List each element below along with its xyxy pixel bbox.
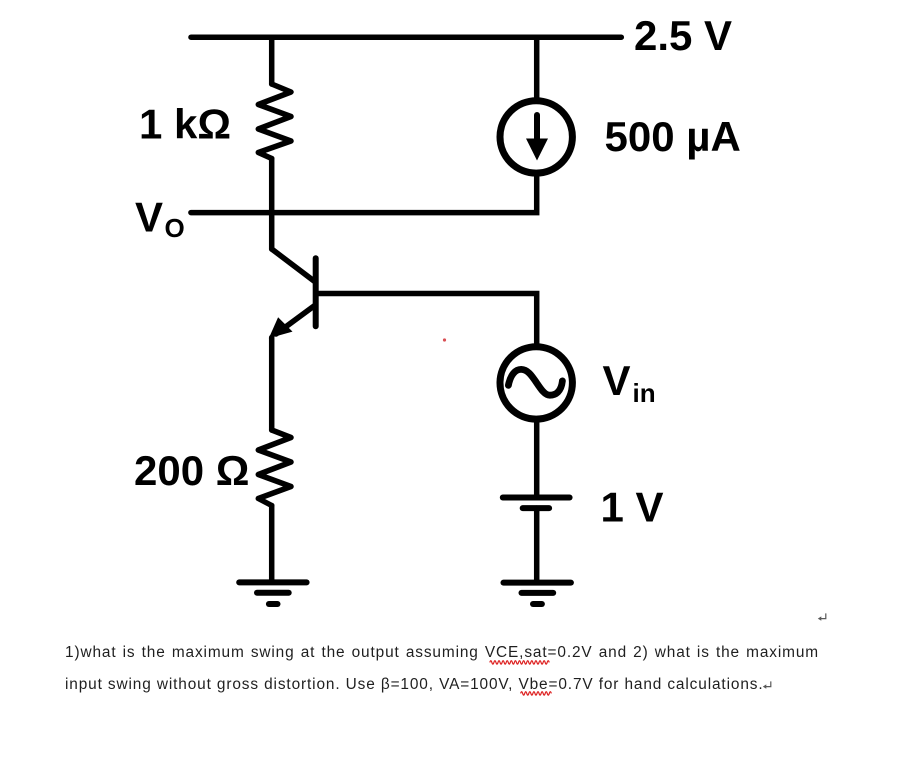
AC source Vin circle xyxy=(500,347,572,419)
svg-text:1 kΩ: 1 kΩ xyxy=(139,100,231,147)
wire: R2 bottom to left ground xyxy=(269,506,275,581)
ground left bar 2 xyxy=(257,590,289,596)
wire: rail to current source top xyxy=(534,37,540,98)
transistor Q1 base bar xyxy=(313,258,319,326)
battery V1 long plate xyxy=(503,495,570,501)
wire: Vin source bottom to battery top xyxy=(534,421,540,495)
svg-text:O: O xyxy=(165,213,185,243)
ground left bar 3 xyxy=(269,601,278,607)
wire: R1 bottom through Vo node to Q1 collector xyxy=(269,159,275,250)
current source I1 circle xyxy=(500,101,572,173)
sine wave inside Vin source xyxy=(508,369,562,395)
problem statement paragraph line 1 xyxy=(65,637,819,669)
battery V1 short plate xyxy=(523,505,549,511)
svg-text:V: V xyxy=(603,357,631,404)
svg-text:1 V: 1 V xyxy=(601,483,664,530)
svg-text:500 µA: 500 µA xyxy=(605,113,741,160)
svg-text:2.5 V: 2.5 V xyxy=(634,12,732,59)
current source I1 arrow xyxy=(526,115,548,161)
resistor R1 1 kOhm zigzag xyxy=(258,84,291,159)
ground right bar 2 xyxy=(522,590,554,596)
wire: Q1 base to Vin source top xyxy=(319,294,537,346)
transistor Q1 emitter arrowhead xyxy=(269,317,293,338)
stray red dot xyxy=(443,338,446,341)
spellcheck squiggle under VCE,sat xyxy=(490,661,549,664)
problem statement paragraph line 2 xyxy=(65,669,819,701)
transistor Q1 emitter diagonal xyxy=(276,306,314,334)
pilcrow return mark line 2 xyxy=(763,681,771,688)
resistor R2 200 Ohm zigzag xyxy=(258,430,291,506)
wire: battery to right ground xyxy=(534,508,540,580)
svg-text:200 Ω: 200 Ω xyxy=(134,447,249,494)
wire: emitter to R2 top xyxy=(269,338,275,431)
pilcrow return mark line 0 xyxy=(818,613,826,620)
spellcheck squiggle under Vbe xyxy=(521,692,552,695)
svg-text:in: in xyxy=(633,378,656,408)
ground left bar 1 xyxy=(239,579,306,585)
wire: 2.5V power rail xyxy=(191,34,621,40)
ground right bar 3 xyxy=(533,601,542,607)
ground right bar 1 xyxy=(504,580,571,586)
svg-text:V: V xyxy=(135,193,163,240)
wire: Vo node horizontal to current source bottom corner xyxy=(191,177,537,213)
transistor Q1 collector diagonal xyxy=(272,249,314,281)
wire: rail to R1 top xyxy=(269,37,275,84)
